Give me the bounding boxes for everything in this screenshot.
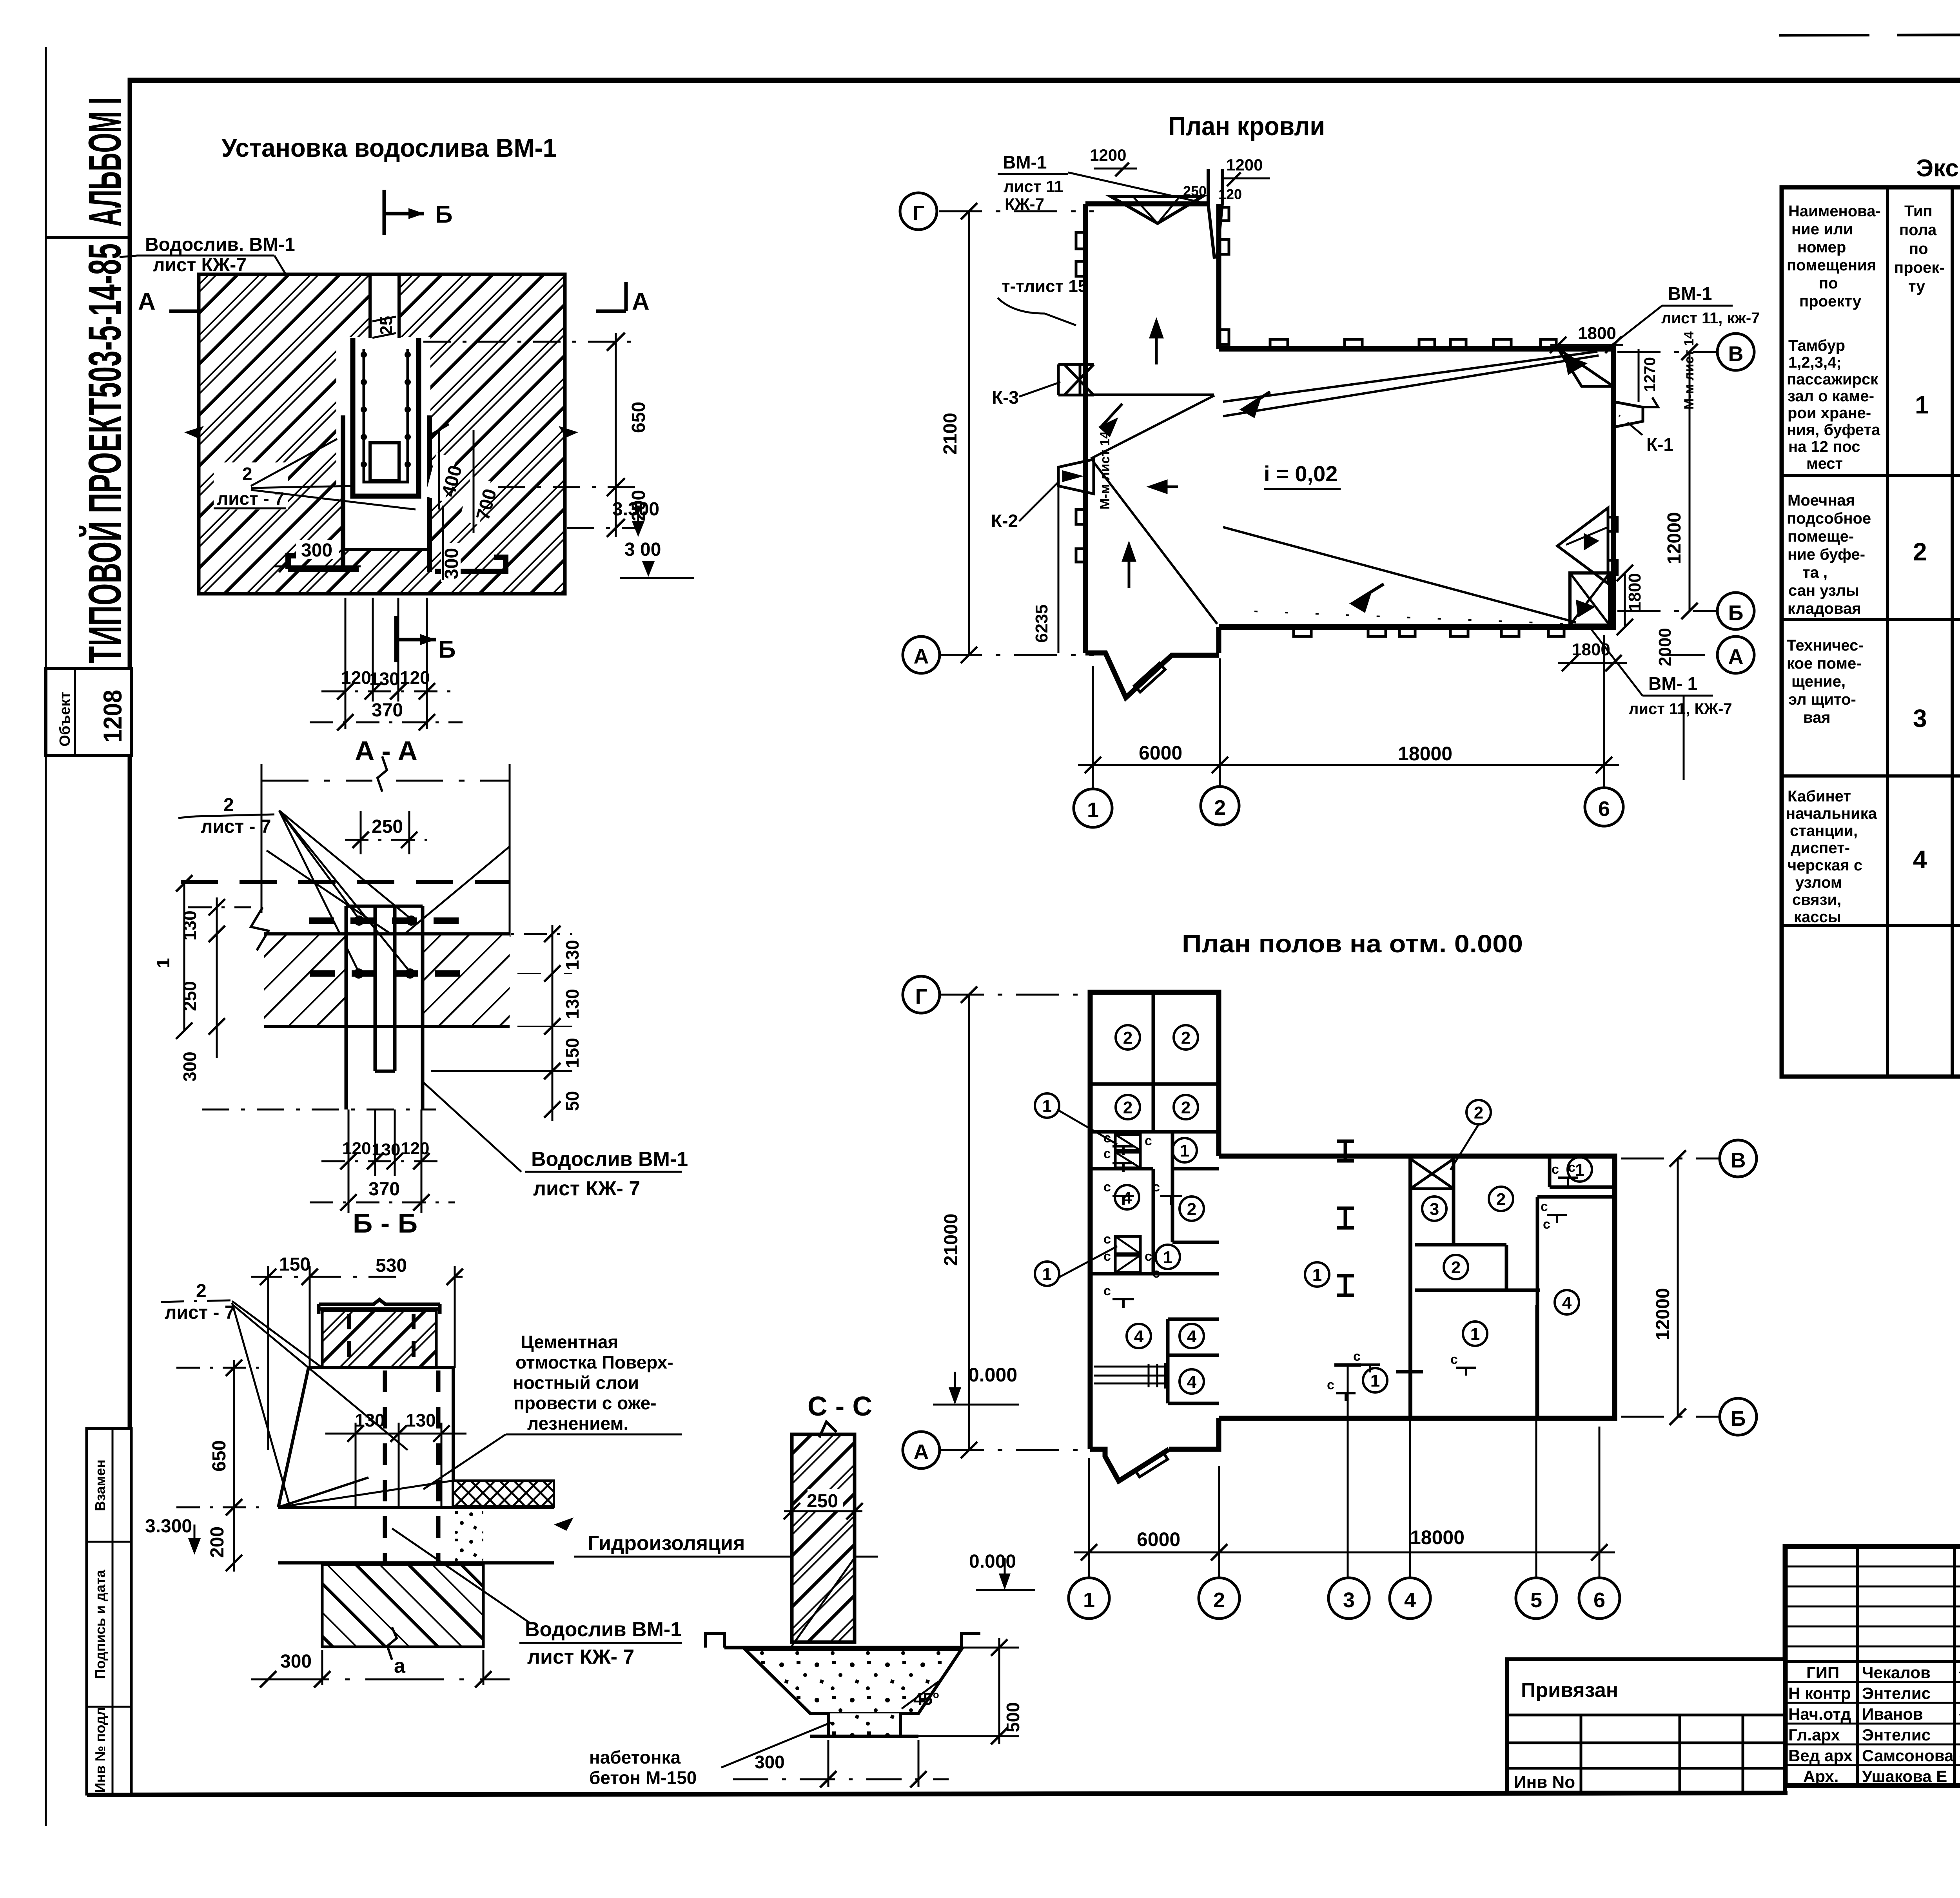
wing walls	[1219, 1156, 1615, 1418]
svg-text:2000: 2000	[1655, 628, 1675, 666]
wing crenellation bottom	[1294, 627, 1311, 636]
small hatched boxes upper	[1115, 1135, 1140, 1150]
top canopy triangle	[1111, 196, 1203, 223]
svg-text:1800: 1800	[1625, 573, 1644, 611]
svg-text:4: 4	[1404, 1588, 1416, 1612]
diagonal slope line	[278, 1477, 368, 1507]
svg-text:лист - 7: лист - 7	[217, 488, 284, 509]
crenellation bumps right strip	[1219, 207, 1229, 221]
svg-text:Вед арх: Вед арх	[1788, 1746, 1853, 1765]
row 4 name	[1786, 788, 1877, 926]
white channel region	[336, 337, 430, 498]
svg-text:2: 2	[196, 1281, 207, 1302]
section mark А right	[624, 282, 628, 311]
svg-text:1: 1	[1180, 1141, 1189, 1160]
svg-text:Техничес-: Техничес-	[1787, 637, 1864, 654]
slab hatched band	[264, 934, 346, 1026]
svg-text:2: 2	[1123, 1028, 1132, 1048]
svg-text:0.000: 0.000	[969, 1551, 1016, 1572]
svg-text:12000: 12000	[1664, 512, 1685, 564]
section mark Б bottom	[394, 616, 398, 662]
bold dashed dowel lines	[309, 917, 462, 924]
svg-text:Экспликация: Экспликация	[1916, 155, 1960, 182]
bottom dash-dot line	[202, 1109, 436, 1111]
stairs	[1094, 1367, 1166, 1383]
svg-text:Взамен: Взамен	[92, 1459, 108, 1511]
svg-text:3: 3	[1430, 1200, 1439, 1219]
grid circles 1 2 6	[1074, 789, 1112, 827]
leader fan to dowels	[279, 810, 359, 919]
svg-text:2: 2	[1187, 1200, 1196, 1219]
frame bottom border	[87, 1793, 1788, 1795]
svg-text:с: с	[1152, 1180, 1160, 1195]
svg-text:130: 130	[180, 910, 200, 941]
parapet cap	[319, 1300, 440, 1309]
svg-text:проек-: проек-	[1894, 259, 1945, 276]
break marks on sides	[184, 426, 204, 438]
svg-text:21000: 21000	[941, 1214, 962, 1266]
funnel slot top	[1208, 169, 1222, 259]
svg-text:Цементная: Цементная	[521, 1332, 618, 1352]
svg-text:150: 150	[279, 1254, 310, 1275]
svg-text:сан узлы: сан узлы	[1788, 582, 1859, 599]
svg-text:Г: Г	[915, 985, 927, 1008]
svg-text:130: 130	[562, 989, 583, 1019]
top dim line with break	[261, 780, 372, 782]
привязан box	[1507, 1659, 1785, 1793]
svg-text:лист 11, кж-7: лист 11, кж-7	[1661, 310, 1760, 327]
svg-text:бетон М-150: бетон М-150	[589, 1767, 697, 1788]
svg-text:18000: 18000	[1410, 1526, 1465, 1548]
left dim chain	[216, 897, 218, 1058]
left rows thin	[1785, 1566, 1960, 1568]
svg-text:диспет-: диспет-	[1791, 839, 1850, 857]
svg-text:С - С: С - С	[808, 1391, 872, 1421]
svg-text:120: 120	[342, 1139, 371, 1158]
svg-text:1: 1	[1470, 1325, 1480, 1344]
svg-text:Водослив ВМ-1: Водослив ВМ-1	[531, 1148, 688, 1171]
axis Б	[1621, 1416, 1719, 1418]
svg-text:зал о каме-: зал о каме-	[1788, 388, 1874, 405]
inner ridge and valleys	[1091, 393, 1214, 396]
hatched wall square	[199, 274, 565, 594]
svg-text:связи,: связи,	[1792, 891, 1841, 908]
svg-text:отмостка Поверх-: отмостка Поверх-	[515, 1352, 673, 1372]
svg-text:щение,: щение,	[1791, 673, 1846, 690]
svg-text:с: с	[1543, 1217, 1550, 1232]
svg-text:станции,: станции,	[1790, 822, 1858, 839]
svg-text:Гидроизоляция: Гидроизоляция	[588, 1532, 745, 1555]
svg-text:i = 0,02: i = 0,02	[1264, 461, 1338, 486]
svg-text:1: 1	[1915, 391, 1929, 419]
svg-text:ние или: ние или	[1791, 221, 1853, 238]
svg-text:Водослив ВМ-1: Водослив ВМ-1	[525, 1618, 682, 1641]
dim 400 700 rotated	[425, 453, 456, 502]
svg-text:с: с	[1103, 1146, 1111, 1161]
anchor hook left	[288, 556, 359, 569]
svg-text:3 00: 3 00	[624, 539, 661, 560]
X box in wing	[1410, 1159, 1454, 1189]
svg-text:та ,: та ,	[1802, 564, 1828, 581]
svg-text:эл щито-: эл щито-	[1788, 691, 1856, 708]
names column	[1788, 1663, 1954, 1786]
svg-text:Энтелис: Энтелис	[1862, 1726, 1931, 1744]
svg-text:Г: Г	[913, 201, 925, 225]
svg-text:4: 4	[1913, 845, 1927, 874]
left margin big album text	[46, 236, 130, 239]
svg-text:набетонка: набетонка	[589, 1747, 681, 1767]
svg-text:1200: 1200	[1226, 156, 1263, 174]
svg-text:50: 50	[562, 1091, 583, 1111]
svg-text:лист - 7: лист - 7	[201, 816, 271, 837]
svg-text:6235: 6235	[1032, 604, 1051, 643]
svg-text:помещения: помещения	[1787, 257, 1876, 274]
svg-text:лист КЖ- 7: лист КЖ- 7	[533, 1177, 640, 1200]
svg-text:1: 1	[1370, 1371, 1380, 1390]
svg-text:лист КЖ- 7: лист КЖ- 7	[527, 1646, 634, 1668]
axis leader lines 3 4 5	[1347, 1365, 1349, 1578]
section mark Б top	[383, 190, 386, 235]
insulation crosshatch strip	[453, 1481, 554, 1506]
dim 250 in column	[808, 1489, 843, 1511]
svg-text:200: 200	[207, 1526, 228, 1558]
svg-text:Кабинет: Кабинет	[1788, 788, 1851, 805]
foundation top line	[724, 1646, 962, 1650]
axis Б right	[1617, 610, 1718, 612]
svg-text:1,2,3,4;: 1,2,3,4;	[1788, 354, 1842, 371]
svg-text:Арх.: Арх.	[1803, 1767, 1838, 1786]
main title block frame	[1785, 1546, 1960, 1786]
bottom dimension chain	[1092, 666, 1094, 789]
anchor hook right	[435, 557, 506, 571]
svg-text:АЛЬБОМ I: АЛЬБОМ I	[79, 97, 131, 227]
svg-text:Б: Б	[435, 201, 453, 228]
svg-text:3: 3	[1343, 1588, 1355, 1612]
svg-text:кассы: кассы	[1794, 908, 1841, 926]
svg-text:Установка водослива ВМ-1: Установка водослива ВМ-1	[221, 133, 557, 162]
svg-text:2: 2	[1181, 1028, 1191, 1048]
svg-text:Инв No: Инв No	[1514, 1773, 1575, 1792]
svg-text:вая: вая	[1803, 709, 1831, 726]
block partitions	[1152, 992, 1155, 1132]
svg-text:В: В	[1728, 342, 1744, 366]
svg-text:ния, буфета: ния, буфета	[1787, 421, 1880, 439]
section mark А left	[200, 282, 204, 311]
channel walls	[345, 906, 348, 1109]
svg-text:на 12 пос: на 12 пос	[1788, 438, 1860, 455]
svg-text:2100: 2100	[940, 413, 961, 455]
slope arrows in block	[1151, 321, 1162, 364]
block bottom jag	[1090, 1449, 1169, 1481]
right dim 500	[998, 1638, 1000, 1744]
svg-text:3: 3	[1913, 704, 1927, 732]
svg-text:370: 370	[372, 700, 403, 721]
svg-text:Наименова-: Наименова-	[1788, 203, 1881, 220]
bottom jag of block	[1085, 653, 1219, 698]
small hatched boxes lower	[1115, 1236, 1140, 1254]
svg-text:Привязан: Привязан	[1521, 1679, 1618, 1702]
svg-text:1: 1	[1042, 1097, 1052, 1116]
svg-text:лист 11: лист 11	[1004, 177, 1063, 196]
svg-text:3.300: 3.300	[612, 499, 659, 520]
svg-text:лист КЖ-7: лист КЖ-7	[153, 255, 247, 276]
svg-text:начальника: начальника	[1786, 805, 1877, 822]
К-2 funnel left	[1058, 459, 1094, 494]
U channel outer	[353, 338, 419, 496]
wing drainage lines	[1223, 352, 1597, 402]
svg-text:6000: 6000	[1139, 742, 1182, 764]
svg-text:130: 130	[355, 1410, 385, 1430]
leader lines	[1058, 1110, 1117, 1144]
axis А left	[939, 654, 1094, 656]
svg-text:подсобное: подсобное	[1787, 510, 1871, 527]
svg-text:18000: 18000	[1398, 743, 1452, 765]
left sub columns	[1856, 1546, 1859, 1786]
svg-text:А - А: А - А	[355, 736, 417, 766]
inner dashed channel legs	[383, 1370, 387, 1630]
frame top border	[128, 78, 1960, 83]
svg-text:К-3: К-3	[992, 387, 1019, 408]
svg-text:2: 2	[1913, 538, 1927, 566]
grid circles	[1069, 1578, 1620, 1619]
wing crenellation top	[1270, 339, 1288, 349]
dim 300 left bottom	[296, 540, 339, 559]
svg-text:А: А	[632, 288, 650, 315]
svg-text:120: 120	[341, 667, 371, 688]
wing outline	[1219, 349, 1613, 627]
svg-text:1: 1	[1312, 1265, 1322, 1285]
svg-text:с: с	[1103, 1249, 1111, 1264]
svg-text:узлом: узлом	[1795, 874, 1842, 891]
svg-text:4: 4	[1134, 1327, 1144, 1346]
svg-text:300: 300	[301, 540, 332, 561]
svg-text:4: 4	[1187, 1327, 1197, 1346]
svg-text:А: А	[914, 645, 929, 668]
svg-text:ВМ- 1: ВМ- 1	[1648, 673, 1697, 694]
sheet edge left	[45, 47, 47, 1826]
svg-text:6: 6	[1598, 797, 1610, 821]
svg-text:1: 1	[1087, 798, 1099, 822]
svg-text:Водослив. ВМ-1: Водослив. ВМ-1	[145, 234, 295, 255]
svg-text:500: 500	[1003, 1702, 1023, 1732]
svg-text:250: 250	[372, 816, 403, 837]
svg-text:Н контр: Н контр	[1788, 1684, 1851, 1702]
svg-text:1270: 1270	[1641, 357, 1659, 392]
svg-text:пола: пола	[1899, 221, 1937, 239]
svg-text:с: с	[1103, 1232, 1111, 1247]
svg-text:300: 300	[280, 1651, 312, 1672]
right end top canopy	[1558, 349, 1613, 386]
left zig break on slab	[251, 907, 269, 950]
slot edges	[368, 274, 372, 340]
svg-text:рои хране-: рои хране-	[1788, 404, 1871, 422]
bottom dims 120 130 120 / 370	[345, 598, 347, 729]
svg-text:ВМ-1: ВМ-1	[1668, 283, 1712, 304]
svg-text:черская с: черская с	[1788, 857, 1862, 874]
svg-text:кладовая: кладовая	[1788, 600, 1861, 617]
lower channel legs	[341, 415, 345, 572]
svg-text:лист 11, КЖ-7: лист 11, КЖ-7	[1629, 700, 1732, 718]
axis Г	[941, 994, 1088, 996]
водослив label	[392, 1528, 529, 1622]
svg-text:Ушакова Е: Ушакова Е	[1862, 1767, 1947, 1786]
6235 dim	[1058, 466, 1060, 653]
svg-text:300: 300	[180, 1051, 200, 1082]
svg-text:530: 530	[376, 1255, 407, 1276]
square outline	[199, 274, 565, 594]
svg-text:2: 2	[1214, 796, 1226, 819]
svg-text:1: 1	[1042, 1265, 1052, 1284]
row 1 name	[1787, 337, 1880, 472]
right dim chain	[552, 925, 554, 1121]
tall block outline	[1085, 204, 1219, 653]
svg-text:с: с	[1103, 1283, 1111, 1298]
svg-text:ГИП: ГИП	[1806, 1663, 1839, 1682]
svg-text:с: с	[1145, 1133, 1152, 1148]
svg-text:проекту: проекту	[1799, 293, 1862, 310]
foundation hatched	[322, 1564, 483, 1647]
svg-text:Б - Б: Б - Б	[353, 1208, 417, 1238]
row 3 name	[1787, 637, 1864, 726]
svg-text:Самсонова: Самсонова	[1862, 1746, 1954, 1765]
label Водослив ВМ-1 лист КЖ-7	[423, 1082, 521, 1172]
floor slab band	[278, 1506, 554, 1509]
svg-text:250: 250	[807, 1491, 838, 1512]
svg-text:130: 130	[372, 1140, 400, 1159]
small T marks	[1112, 1146, 1134, 1172]
column hatched	[792, 1434, 855, 1642]
svg-text:1: 1	[1083, 1588, 1095, 1612]
bottom dim chain	[1088, 1458, 1090, 1578]
left margin bottom cells	[87, 1428, 131, 1794]
room number circles left block	[1035, 1025, 1592, 1394]
dim 25 rotated in slot	[377, 310, 394, 339]
svg-text:Энтелис: Энтелис	[1862, 1684, 1931, 1702]
svg-text:2: 2	[1451, 1258, 1461, 1277]
gидроизоляция leader	[792, 1558, 855, 1646]
dashed roof top line	[181, 880, 510, 884]
svg-text:с: с	[1103, 1180, 1111, 1195]
wing circles	[1305, 1262, 1329, 1287]
svg-text:Гл.арх: Гл.арх	[1788, 1726, 1840, 1744]
U channel inner rebar with dots	[364, 349, 408, 482]
svg-text:5: 5	[1530, 1588, 1542, 1612]
svg-text:Нач.отд: Нач.отд	[1788, 1705, 1851, 1723]
svg-text:120: 120	[401, 1139, 429, 1158]
svg-text:по: по	[1909, 240, 1928, 257]
svg-text:с: с	[1450, 1352, 1458, 1367]
frame left border	[128, 78, 132, 1796]
svg-text:кое поме-: кое поме-	[1787, 655, 1862, 672]
svg-text:с: с	[1152, 1266, 1160, 1281]
svg-text:250: 250	[1183, 183, 1207, 199]
svg-text:мест: мест	[1806, 455, 1843, 472]
svg-text:6000: 6000	[1137, 1528, 1180, 1550]
svg-text:Подпись и дата: Подпись и дата	[92, 1570, 108, 1679]
svg-text:250: 250	[180, 981, 200, 1011]
svg-text:по: по	[1819, 275, 1838, 292]
svg-text:1200: 1200	[1090, 146, 1126, 164]
svg-text:Моечная: Моечная	[1788, 492, 1855, 509]
funnel right	[1613, 402, 1643, 427]
bottom right X box	[1570, 573, 1610, 625]
svg-text:К-2: К-2	[991, 511, 1018, 531]
svg-text:с: с	[1103, 1131, 1111, 1146]
crenellation bumps left edge	[1076, 232, 1085, 249]
svg-text:ние буфе-: ние буфе-	[1788, 546, 1865, 563]
dim 300 rotated right	[441, 543, 461, 582]
axis В	[1621, 1158, 1719, 1160]
row 2 name	[1787, 492, 1871, 617]
svg-text:1208: 1208	[98, 690, 127, 743]
svg-text:Тип: Тип	[1904, 203, 1933, 220]
svg-text:300: 300	[441, 548, 462, 579]
svg-text:В: В	[1731, 1149, 1746, 1172]
inner box at slot bottom	[370, 443, 399, 480]
svg-text:150: 150	[562, 1038, 583, 1068]
svg-text:2: 2	[1474, 1103, 1483, 1122]
svg-text:4: 4	[1562, 1293, 1572, 1312]
svg-text:План полов на отм. 0.000: План полов на отм. 0.000	[1182, 930, 1523, 958]
svg-text:130: 130	[562, 940, 583, 970]
svg-text:2: 2	[223, 795, 234, 816]
axis А	[941, 1449, 1088, 1451]
axis А right	[1662, 654, 1718, 656]
svg-text:650: 650	[209, 1440, 230, 1472]
big diagonals from top	[267, 850, 392, 935]
top right fold dash line	[1779, 34, 1960, 35]
svg-text:650: 650	[628, 402, 649, 433]
left margin small table	[46, 669, 132, 756]
mid right canopy triangle	[1557, 508, 1608, 584]
svg-text:Инв № подл: Инв № подл	[92, 1707, 108, 1793]
svg-text:2: 2	[1496, 1190, 1506, 1209]
svg-text:лезнением.: лезнением.	[527, 1413, 628, 1434]
К-3 canopy left	[1058, 364, 1094, 395]
svg-text:120: 120	[1218, 186, 1242, 202]
svg-text:Чекалов: Чекалов	[1862, 1663, 1931, 1682]
svg-text:2: 2	[1213, 1588, 1225, 1612]
svg-text:с: с	[1353, 1349, 1361, 1364]
svg-text:Б: Б	[1728, 601, 1744, 625]
svg-text:Б: Б	[438, 636, 456, 663]
svg-text:370: 370	[368, 1179, 400, 1200]
right dim 12000	[1677, 1158, 1679, 1417]
svg-text:провести с оже-: провести с оже-	[514, 1393, 657, 1413]
svg-text:2: 2	[242, 464, 252, 484]
svg-text:3.300: 3.300	[145, 1516, 192, 1537]
svg-text:с: с	[1568, 1160, 1575, 1175]
svg-text:Тамбур: Тамбур	[1788, 337, 1845, 354]
svg-text:0.000: 0.000	[968, 1364, 1017, 1386]
wall body	[278, 1368, 453, 1507]
svg-text:номер: номер	[1797, 239, 1846, 256]
svg-text:45°: 45°	[913, 1690, 940, 1709]
svg-text:12000: 12000	[1653, 1288, 1673, 1340]
header texts	[1787, 203, 1945, 310]
svg-text:ВМ-1: ВМ-1	[1003, 152, 1047, 172]
white slot center top	[370, 272, 399, 449]
svg-text:помеще-: помеще-	[1788, 528, 1854, 545]
svg-text:Иванов: Иванов	[1862, 1705, 1923, 1723]
svg-text:А: А	[914, 1440, 929, 1464]
svg-text:300: 300	[755, 1752, 785, 1772]
right axis dim 12000	[1689, 352, 1691, 611]
I column marks in hall	[1337, 1141, 1354, 1295]
svg-text:с: с	[1552, 1162, 1559, 1177]
svg-text:К-1: К-1	[1646, 434, 1673, 455]
left dims 650 200 3.300	[233, 1360, 235, 1572]
